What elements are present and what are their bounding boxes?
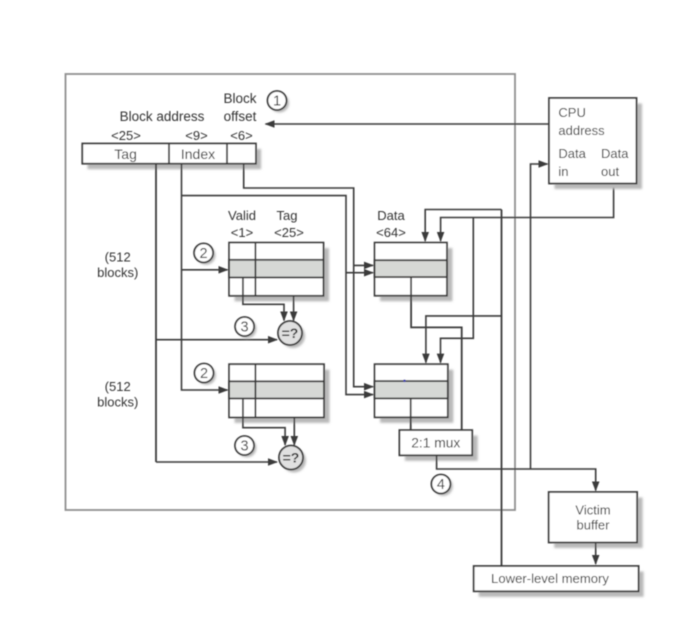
wire index arrow into data array 1: [346, 272, 373, 274]
svg-text:in: in: [558, 164, 568, 179]
data array 2: [375, 364, 448, 417]
svg-text:2: 2: [200, 246, 208, 262]
svg-text:CPU: CPU: [558, 105, 585, 120]
svg-text:Valid: Valid: [228, 208, 256, 223]
victim buffer shadow: [554, 498, 642, 549]
svg-text:3: 3: [241, 320, 249, 336]
victim buffer: [549, 492, 637, 543]
svg-text:Victim: Victim: [575, 503, 610, 518]
circled 3 upper: [235, 317, 256, 338]
circled 1: [268, 91, 290, 113]
svg-text:(512: (512: [105, 379, 131, 394]
wire data in to CPU: [531, 164, 548, 469]
wire tag compare branch to =? 1: [156, 339, 277, 341]
wire tag compare branch to =? 2: [156, 461, 277, 463]
wire index arrow into tag array 1: [182, 269, 228, 271]
wire index vertical: [182, 164, 228, 390]
tag array 1: [229, 243, 323, 296]
svg-text:<9>: <9>: [185, 128, 207, 143]
wire refill branch into data array 2: [426, 316, 502, 363]
data array 2 shadow: [380, 370, 453, 423]
circled 2 upper: [194, 243, 215, 264]
svg-text:Data: Data: [601, 146, 629, 161]
svg-text:address: address: [558, 123, 605, 138]
svg-text:Data: Data: [558, 146, 586, 161]
circled 4: [431, 475, 452, 496]
tag array 1 shadow: [235, 248, 329, 301]
circled 2 lower: [195, 364, 216, 385]
wire mux output to victim buffer: [437, 455, 596, 490]
svg-text:Index: Index: [181, 146, 215, 162]
register shadow: [88, 149, 262, 169]
svg-text:blocks): blocks): [97, 265, 138, 280]
svg-text:<25>: <25>: [274, 225, 304, 240]
svg-text:buffer: buffer: [576, 518, 610, 533]
lower-level memory shadow: [479, 572, 644, 597]
outer frame: [66, 74, 516, 510]
svg-text:Data: Data: [377, 208, 405, 223]
tag array 2: [229, 364, 324, 417]
wire data out branch into data array 2: [441, 218, 474, 363]
svg-text:Block address: Block address: [120, 109, 205, 124]
mux shadow: [405, 436, 478, 461]
wire valid out array 2: [243, 417, 285, 445]
wire victim buffer to lower-level memory: [595, 543, 597, 565]
mux 2:1: [399, 430, 472, 455]
data array 1 shadow: [380, 248, 452, 301]
svg-text:2:1 mux: 2:1 mux: [411, 436, 460, 451]
wire data array 1 to mux: [411, 296, 462, 430]
wire tag out array 2: [293, 417, 295, 445]
circled 3 lower: [235, 436, 256, 457]
svg-text:=?: =?: [283, 450, 300, 466]
svg-text:1: 1: [273, 94, 281, 110]
wire valid out array 1: [243, 296, 284, 321]
comparator =? 2: [279, 446, 306, 473]
svg-text:<6>: <6>: [230, 128, 252, 143]
svg-text:4: 4: [437, 477, 445, 493]
wire refill from lower-level memory to data array tops: [501, 210, 503, 567]
CPU box: [549, 98, 637, 184]
data array 1: [375, 243, 447, 296]
tag array 2 shadow: [235, 370, 330, 423]
svg-text:out: out: [601, 164, 619, 179]
svg-text:<1>: <1>: [231, 225, 253, 240]
lower-level memory: [474, 566, 639, 591]
wire CPU address to block offset: [266, 123, 550, 125]
svg-text:Lower-level memory: Lower-level memory: [491, 571, 609, 586]
svg-text:(512: (512: [105, 250, 131, 265]
svg-text:3: 3: [240, 439, 248, 455]
wire block offset to data arrays: [244, 164, 373, 387]
svg-text:=?: =?: [282, 325, 299, 341]
svg-text:offset: offset: [224, 109, 257, 124]
wire data array 2 to mux: [410, 417, 412, 430]
svg-text:Block: Block: [223, 91, 256, 106]
svg-text:Tag: Tag: [114, 146, 137, 162]
comparator =? 1: [278, 321, 305, 348]
svg-text:<64>: <64>: [376, 225, 406, 240]
svg-text:<25>: <25>: [111, 128, 141, 143]
wire tag out array 1: [293, 296, 295, 321]
wire offset arrow into data array 1: [354, 264, 373, 266]
wire index branch to data arrays: [182, 196, 374, 395]
svg-text:2: 2: [200, 366, 208, 382]
blue speck artifact: [403, 380, 406, 383]
svg-text:Tag: Tag: [277, 208, 298, 223]
wire CPU data out to data arrays: [441, 184, 614, 242]
register Tag|Index|offset: [82, 144, 256, 164]
wire tag vertical: [155, 164, 157, 462]
CPU box shadow: [555, 104, 643, 190]
svg-text:blocks): blocks): [97, 394, 138, 409]
